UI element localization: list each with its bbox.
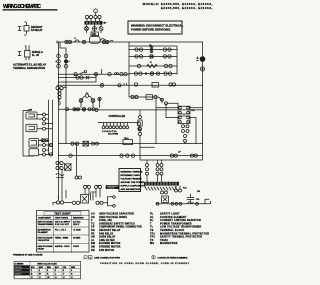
svg-text:COLOR: COLOR (15, 267, 22, 269)
svg-text:5: 5 (63, 270, 64, 272)
svg-text:TERMINAL DESIGNATION: TERMINAL DESIGNATION (13, 66, 45, 70)
wire drops from left rails to bottom (59, 190, 67, 199)
svg-text:<1 OHM: <1 OHM (73, 229, 81, 232)
svg-text:TEST POINTS: TEST POINTS (55, 217, 69, 219)
svg-text:TB-A PWB: TB-A PWB (108, 133, 118, 136)
svg-text:FM: FM (92, 33, 95, 36)
svg-text:2150 V: 2150 V (73, 224, 80, 226)
bottom cluster: wires right (104, 197, 113, 206)
svg-text:COMPONENT PANEL CONNECTOR: COMPONENT PANEL CONNECTOR (99, 226, 142, 229)
title WIRING SCHEMATIC (3, 4, 58, 11)
transformer primary nodes col (146, 160, 149, 182)
svg-text:DR: DR (91, 230, 95, 232)
warning box disconnect power (128, 21, 183, 34)
interlock switch on rung4 ext (74, 71, 87, 76)
thermal switch on L3 (82, 108, 86, 112)
power transformer T winding (144, 182, 179, 190)
connector trio on L5 (120, 154, 135, 157)
wire bus L2 (y85.3) (57, 84, 203, 86)
svg-text:CONDITION OF OVEN: DOOR CLOSE: CONDITION OF OVEN: DOOR CLOSED, OVEN IN … (100, 262, 190, 265)
svg-text:STIRRER MOTOR: STIRRER MOTOR (99, 247, 121, 249)
svg-text:TL: TL (150, 227, 154, 229)
bottom cluster: nodes right (96, 201, 103, 204)
svg-text:POWER TRANSFORMER: POWER TRANSFORMER (160, 222, 192, 225)
svg-text:SL: SL (150, 220, 154, 222)
svg-text:.5: .5 (31, 277, 33, 279)
svg-text:WARNING: THERE IS: WARNING: THERE IS (121, 171, 144, 174)
node mid bus (154, 95, 157, 98)
node below PL (200, 67, 204, 71)
magnetron terminal block (filled) (85, 21, 107, 25)
hv end hook (205, 199, 211, 204)
svg-text:LF: LF (91, 240, 95, 242)
models label (143, 2, 213, 10)
svg-text:WIRE COLOR CODE: WIRE COLOR CODE (37, 263, 57, 265)
svg-text:MAGNETRON: MAGNETRON (160, 242, 178, 245)
hv circuit nodes (161, 191, 168, 194)
node right of controller (137, 122, 140, 125)
svg-text:FUSE, 15A: FUSE, 15A (99, 219, 112, 222)
svg-text:FILAMENT: FILAMENT (38, 231, 49, 234)
rung2 connector pair right (163, 55, 171, 58)
line fuse squiggle (56, 170, 64, 201)
svg-text:CH: CH (91, 214, 95, 216)
wire color code table (13, 253, 81, 279)
magnetron filament terminals row (85, 15, 101, 21)
svg-text:HIGH VOLTAGE CAPACITOR: HIGH VOLTAGE CAPACITOR (99, 213, 134, 216)
defrost relay coil box 4 (29, 149, 39, 156)
svg-text:CODE 1: CODE 1 (15, 270, 22, 272)
rung 2 wire (129, 55, 177, 57)
svg-text:OR: OR (91, 237, 95, 239)
svg-text:CODE 2: CODE 2 (15, 274, 22, 276)
blower motor FM box (91, 32, 99, 36)
relay FL-S (alternate symbol 2) (18, 46, 43, 60)
svg-text:FM: FM (91, 250, 95, 252)
magnetron thermal protector circles row (85, 25, 104, 33)
wire bus y77.5 (59, 77, 97, 79)
power label box (filled) (106, 185, 120, 189)
svg-text:TRIAC: TRIAC (160, 239, 168, 242)
svg-text:.5: .5 (55, 277, 57, 279)
wire bus L3 (y109) (59, 108, 97, 110)
svg-text:CURRENT LIMITING RESISTOR: CURRENT LIMITING RESISTOR (160, 220, 201, 222)
svg-text:DM: DM (29, 110, 33, 112)
vertical chain x140: nodes (139, 126, 142, 144)
node controller feed (95, 69, 102, 111)
hv labels (183, 188, 200, 194)
hv diode box (162, 196, 169, 203)
svg-text:FAN MOTOR: FAN MOTOR (99, 249, 114, 252)
nodes on hv bottom run (156, 202, 198, 205)
connector pair on L5 right2 (190, 154, 197, 157)
rung4 connector pair left (134, 72, 142, 75)
rung4 node (156, 72, 159, 75)
svg-text:HIGH VOLTAGE DIODE: HIGH VOLTAGE DIODE (99, 216, 127, 219)
relay contact nodes grid (182, 125, 190, 143)
svg-text:3: 3 (47, 270, 48, 272)
svg-text:CH: CH (196, 199, 200, 201)
svg-text:TC: TC (91, 223, 95, 225)
svg-text:FAN RELAY: FAN RELAY (99, 232, 114, 235)
warning box high voltage (119, 169, 146, 192)
svg-text:FR: FR (91, 233, 95, 235)
svg-text:PRESENCE OF LINE VOLTAGE: PRESENCE OF LINE VOLTAGE (13, 253, 43, 256)
svg-text:LINE CONNECTION PIPE: LINE CONNECTION PIPE (94, 258, 120, 260)
node step (161, 98, 168, 104)
wire ladder right rail (x177) (129, 46, 177, 74)
svg-text:FA RELAY: FA RELAY (31, 29, 43, 32)
controller terminal wire (98, 122, 139, 124)
wire ladder left rail (128, 41, 130, 43)
svg-text:VOLTAGE PRESENT: VOLTAGE PRESENT (121, 178, 143, 181)
bottom cluster: triac box (81, 195, 89, 204)
bottom cluster: ticks (91, 192, 96, 200)
connector pair on L5 right1 (170, 154, 177, 157)
controller label (109, 115, 126, 118)
svg-text:CAPACITOR: CAPACITOR (38, 239, 50, 242)
svg-text:.5: .5 (39, 277, 41, 279)
wire bus y82 (59, 74, 97, 82)
svg-text:1: 1 (31, 270, 32, 272)
connector pair left of tb-2 (41, 139, 48, 142)
footnote contacts symbol (152, 255, 188, 259)
svg-text:TP1: TP1 (150, 233, 155, 235)
relay block contact nodes col1 (37, 113, 46, 130)
left relay block rail (23, 111, 34, 157)
rung 1 wire (129, 49, 177, 51)
bottom cluster: top terminal row (84, 186, 102, 198)
rung4 connector pair right (164, 72, 172, 75)
wire left rail A (x58.5) (58, 42, 60, 200)
svg-text:TR: TR (150, 240, 154, 242)
primary interlock node (94, 73, 97, 76)
svg-text:AND MAGNETRON.: AND MAGNETRON. (121, 188, 142, 191)
rung3 node left (137, 64, 140, 67)
svg-text:MAGNETRON THERMAL PROTECTOR: MAGNETRON THERMAL PROTECTOR (160, 232, 209, 235)
stirrer motor coil chain on rail A (58, 89, 61, 105)
svg-text:COMPONENT: COMPONENT (38, 217, 52, 219)
rung 4 wire (129, 73, 177, 75)
rung4 thermal protector (150, 72, 154, 76)
relay FA (alternate symbol 1) (18, 21, 43, 37)
rung1 connector pair right (163, 48, 171, 51)
svg-text:READINGS: READINGS (73, 216, 84, 219)
footnote line connection symbol (84, 256, 120, 260)
defrost relay coil box 2 (26, 124, 37, 132)
fuse F on top bus (75, 40, 80, 42)
wire risers to bottom nodes (46, 141, 53, 155)
node left end tick (56, 41, 58, 43)
svg-text:BLOWER MOTOR: BLOWER MOTOR (99, 243, 121, 245)
rung3 connector pair right (164, 64, 172, 67)
svg-text:SAFETY LIGHT: SAFETY LIGHT (160, 213, 180, 216)
bottom cluster: connector pair left (53, 201, 72, 205)
wire riser D (x52.5) (46, 100, 53, 155)
magnetron thermal protector squiggle (101, 39, 106, 41)
oven relay contact box (178, 116, 190, 123)
rung4 junction dot (145, 73, 147, 75)
connector pair on L4 (71, 142, 79, 145)
blower motor arch cluster (79, 93, 101, 108)
wire bus rung4 extension (59, 73, 130, 75)
bottom cluster: nodes (72, 201, 79, 204)
node on bus L2 right (118, 84, 121, 87)
controller pin labels (102, 130, 118, 135)
wire transformer secondary drops (158, 175, 181, 191)
svg-text:POWER BEFORE SERVICING.: POWER BEFORE SERVICING. (131, 28, 171, 32)
connector pair on bus L2 x170 (169, 83, 176, 86)
wire relay outputs (185, 108, 203, 144)
rung3 resistor R (147, 62, 157, 68)
vertical chain x140: box (138, 120, 142, 126)
wire hv bottom run (156, 203, 205, 205)
svg-text:GRN: GRN (71, 267, 76, 269)
svg-text:E2100,500, E2100A, E2100A,: E2100,500, E2100A, E2100A, (161, 6, 213, 10)
svg-text:PL: PL (150, 214, 154, 216)
connector pair CP1 on top bus (65, 40, 72, 43)
interlock node row 3 (57, 64, 68, 68)
svg-text:4: 4 (55, 269, 56, 272)
svg-text:FL -25: FL -25 (32, 54, 40, 57)
monitor switch nodes on rung4 (108, 73, 127, 76)
rung 3 wire (129, 65, 177, 67)
connector pair CP2 right of magnetron (102, 40, 109, 43)
svg-text:W: W (39, 274, 41, 276)
svg-text:MG: MG (150, 243, 154, 245)
wire stub above bus (110, 39, 113, 42)
svg-text:2: 2 (39, 270, 40, 272)
wire mid bus (y97) (129, 97, 162, 103)
svg-text:A WIRING: A WIRING (15, 262, 24, 265)
wire right rail (x202.5) (202, 42, 204, 144)
svg-text:FA: FA (192, 109, 195, 112)
wire riser C (x48.5) (46, 100, 49, 155)
svg-text:LINE FILTER: LINE FILTER (99, 240, 115, 242)
magnetron body MG (90, 37, 101, 44)
hv choke squiggle (188, 202, 194, 204)
svg-text:CONT.: CONT. (73, 246, 79, 248)
svg-text:TP2: TP2 (150, 237, 155, 239)
interlock node row 2 (56, 60, 70, 64)
svg-text:.75: .75 (47, 277, 50, 279)
defrost relay coil box 3 (29, 139, 39, 148)
hv connector pair (175, 189, 182, 192)
wire rail B (x66) (60, 42, 66, 144)
rung1 oven lamp OL (149, 45, 153, 53)
svg-text:AROUND THE POWER: AROUND THE POWER (121, 181, 145, 184)
svg-text:H.V.: H.V. (183, 188, 187, 190)
component box mid bus (146, 95, 153, 100)
bottom cluster: end nodes (113, 196, 116, 207)
wire controller feed (y110) (96, 109, 203, 111)
wire step to relay boxes (156, 100, 178, 144)
interlock switch column left: node (57, 54, 68, 58)
controller terminal strip (102, 123, 129, 129)
noise filter box with X (65, 164, 72, 170)
svg-text:BM: BM (91, 243, 95, 245)
oven lamp node on bus L2 (100, 84, 104, 88)
svg-text:OL: OL (150, 217, 154, 219)
wire bus L4 (y143.6) (59, 143, 203, 145)
svg-text:.5: .5 (71, 277, 73, 279)
wire main top bus L1 (57, 41, 203, 43)
component box on bus L2 (152, 83, 159, 88)
interlock box on L4 (83, 141, 89, 146)
svg-text:ANODE - CATH: ANODE - CATH (55, 245, 70, 248)
legend right column (150, 213, 209, 246)
svg-text:FIL 1 - FIL 2: FIL 1 - FIL 2 (55, 230, 67, 232)
vertical chain x140: node (139, 110, 142, 119)
magnetron cluster: antenna node (94, 9, 98, 15)
svg-text:TEST CHART: TEST CHART (54, 211, 71, 215)
svg-text:TB: TB (150, 230, 154, 232)
svg-text:COOKING ELEMENT: COOKING ELEMENT (160, 217, 187, 219)
connector pair on L3 (73, 108, 80, 111)
note alternate relay terminal designation (13, 63, 47, 70)
thermal cutout TP on top bus (82, 40, 86, 44)
legend left column (91, 213, 142, 252)
nodes on L4 (92, 142, 99, 145)
svg-text:EXTREMELY HIGH: EXTREMELY HIGH (121, 175, 141, 177)
wire rail x129 (128, 42, 130, 97)
svg-text:6: 6 (71, 270, 72, 272)
svg-text:OVEN RELAY: OVEN RELAY (99, 236, 116, 239)
node on bus L2 x136 (134, 83, 137, 86)
connector pair on y77.5 (76, 76, 89, 79)
svg-text:DIODE: DIODE (38, 248, 45, 250)
switch ticks on bus L2 (124, 83, 127, 85)
svg-text:CP: CP (91, 227, 95, 229)
svg-text:CR: CR (91, 217, 95, 219)
wire bus L5 (y155.6) (59, 144, 203, 160)
hv capacitor symbol (187, 194, 200, 203)
riser nodes (49, 143, 52, 156)
connector on bus L2 left (56, 86, 67, 89)
svg-text:WIRING SCHEMATIC: WIRING SCHEMATIC (3, 4, 41, 10)
svg-text:OVERHEAT SAFETY SWITCH: OVERHEAT SAFETY SWITCH (99, 222, 135, 225)
svg-text:3.15 V AC OUT: 3.15 V AC OUT (55, 223, 70, 226)
relay block contact nodes col2 (39, 139, 46, 156)
svg-text:TRANSFORMER: TRANSFORMER (38, 223, 54, 226)
wire stub y147 (140, 146, 155, 148)
svg-text:CONTACTS WIRE NUMBERS: CONTACTS WIRE NUMBERS (158, 257, 189, 260)
svg-text:TERM - TERM: TERM - TERM (55, 238, 68, 240)
node below right of controller (138, 127, 141, 130)
svg-text:10 MEG: 10 MEG (73, 238, 81, 240)
fan relay contact box FA (178, 106, 195, 114)
safety light PL (filled) (197, 57, 205, 62)
svg-text:SM: SM (91, 247, 95, 249)
svg-text:SAFETY THERMAL PROTECTOR: SAFETY THERMAL PROTECTOR (160, 236, 202, 239)
transformer secondary nodes grid (156, 160, 163, 175)
rung2 lamp (150, 55, 154, 59)
svg-text:SUPPLY COMPONENTS: SUPPLY COMPONENTS (121, 186, 146, 188)
connector pair mid bus (131, 95, 138, 98)
node on L5 left (69, 154, 72, 157)
node on L3 (66, 108, 69, 111)
svg-text:LOW VOLTAGE TRANSFORMER: LOW VOLTAGE TRANSFORMER (160, 226, 202, 229)
svg-text:TERMINAL BLOCK: TERMINAL BLOCK (160, 229, 184, 232)
rung2 connector pair left (135, 55, 143, 58)
defrost relay coil box 1 (26, 112, 37, 119)
svg-text:DEFROST RELAY: DEFROST RELAY (99, 229, 121, 232)
power cord nodes left column (56, 161, 63, 169)
svg-text:.5: .5 (63, 277, 65, 279)
node pair below (75, 144, 82, 179)
tb-2 terminal box (123, 138, 133, 145)
svg-text:CONTROLLER: CONTROLLER (109, 115, 126, 118)
rung1 connector pair left (135, 48, 143, 51)
test chart table (37, 211, 90, 253)
nodes on L3 right (88, 108, 95, 111)
